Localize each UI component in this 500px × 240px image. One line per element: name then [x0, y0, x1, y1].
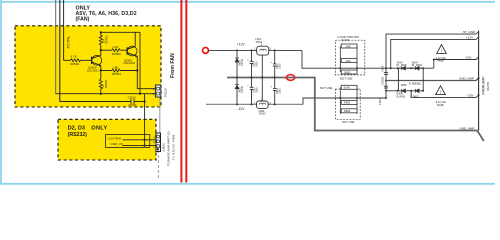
highlight block 2 dashed border	[58, 119, 156, 160]
highlight block 2 (RS232) yellow	[58, 119, 156, 160]
wire to 1.8K	[101, 70, 112, 72]
svg-text:GND63: GND63	[381, 76, 384, 85]
svg-text:C2501: C2501	[128, 96, 137, 100]
cap C649 on x386 upper	[384, 73, 388, 75]
wire +12V right	[391, 37, 479, 68]
node box1 right on +12 wire	[356, 67, 358, 69]
wire GS lower	[411, 95, 478, 98]
svg-text:1/4S: 1/4S	[346, 45, 351, 48]
svg-text:(FAN): (FAN)	[76, 16, 90, 22]
node -12V rail c613	[274, 103, 276, 105]
node -12V rail d602	[236, 103, 238, 105]
node bus gs join	[478, 94, 480, 96]
diode pair bottom wire: D651	[402, 89, 419, 93]
diode pair top wire: D648	[402, 66, 419, 70]
svg-text:+: +	[271, 86, 273, 89]
svg-text:4.7K: 4.7K	[71, 55, 77, 59]
svg-text:FROM AMP: FROM AMP	[482, 76, 486, 95]
node top wire 397	[397, 67, 399, 69]
FCTRL net vertical wire	[63, 0, 65, 60]
svg-text:G5V: G5V	[468, 94, 474, 98]
svg-text:D650: D650	[401, 84, 407, 87]
svg-text:-12V: -12V	[237, 107, 245, 111]
node top wire junction	[100, 31, 102, 33]
node 1.8K wire from Q1 emitter	[100, 69, 102, 71]
long vertical wire (black)	[59, 0, 61, 102]
wire to connector pin 2	[56, 93, 156, 95]
wire R0502 to Q2 base	[120, 49, 127, 51]
svg-text:+12V: +12V	[466, 36, 473, 40]
svg-text:(PART5): (PART5)	[487, 82, 490, 91]
FROM AMP bus	[478, 31, 480, 131]
Q1 emitter vertical	[100, 65, 102, 79]
capacitor C2501	[131, 99, 145, 104]
node 1.8K joins emitter	[136, 69, 138, 71]
svg-text:(RS232): (RS232)	[68, 132, 88, 138]
svg-text:R0503: R0503	[70, 62, 79, 66]
red highlight ring node	[203, 48, 209, 54]
svg-text:C649: C649	[381, 65, 384, 71]
-12V rail jog up	[303, 98, 386, 104]
svg-text:RL_R648: RL_R648	[397, 64, 408, 67]
page frame top border	[0, 1, 495, 3]
-12V rail	[206, 103, 303, 105]
svg-text:1S133: 1S133	[241, 58, 244, 66]
filter L601 (3-terminal)	[257, 46, 269, 55]
resistor R0501 10K (vertical)	[99, 35, 102, 45]
svg-text:2SC2021: 2SC2021	[87, 68, 99, 72]
vertical x386 down	[385, 68, 387, 98]
svg-text:FCTRL: FCTRL	[66, 35, 71, 49]
svg-text:RL_R649: RL_R649	[412, 64, 423, 67]
gray dashed page edge line bottom	[157, 150, 159, 178]
box1 right vertical	[356, 46, 358, 72]
node top wire 411	[410, 67, 412, 69]
transistor Q1 (Q0500)	[92, 55, 102, 67]
svg-text:470PF: 470PF	[128, 103, 137, 107]
resistor R605 (box style)	[341, 85, 357, 89]
signal label box (RS232)	[106, 135, 150, 148]
svg-text:R_R651: R_R651	[397, 95, 406, 98]
node x386 on -12 wire	[385, 97, 387, 99]
+12V rail jog down	[302, 50, 434, 68]
svg-text:1S133: 1S133	[241, 85, 244, 93]
transistor Q2 (Q0501)	[127, 46, 137, 58]
capacitor C613 column (bottom)	[273, 78, 277, 105]
node mid rail d601	[236, 77, 238, 79]
red separator line 1	[180, 0, 182, 183]
svg-text:NOT USE: NOT USE	[320, 86, 333, 90]
svg-text:1/4S: 1/4S	[346, 60, 351, 63]
svg-text:TW12: TW12	[255, 40, 262, 44]
wire R0501 top to node	[100, 32, 102, 35]
node on wire to pin2	[100, 93, 102, 95]
svg-text:+: +	[271, 61, 273, 64]
svg-text:100U: 100U	[255, 87, 258, 93]
node bus gnd join	[478, 77, 480, 79]
diode D601 column (top)	[235, 50, 239, 77]
node bottom wire 397	[397, 90, 399, 92]
capacitor C610 column (top)	[250, 50, 254, 77]
node box1 left on +12 wire	[339, 67, 341, 69]
svg-text:R0502: R0502	[112, 52, 121, 56]
top wire (collector rail)	[101, 31, 140, 33]
highlight block 1 dashed border	[15, 26, 161, 107]
svg-text:2SC1623: 2SC1623	[123, 61, 135, 65]
svg-text:To RS232 PWB: To RS232 PWB	[171, 134, 175, 160]
top wire corner down	[139, 32, 141, 93]
svg-text:ST_GND: ST_GND	[463, 30, 476, 34]
node vertical joins +12 wire	[139, 93, 141, 95]
node -12V rail c612	[251, 103, 253, 105]
node cap wire junction	[144, 100, 146, 102]
svg-text:R_R650(B): R_R650(B)	[409, 83, 421, 86]
wire FCTRL to R0503	[64, 59, 71, 61]
resistor R609 (box style)	[341, 109, 357, 113]
svg-text:TW12: TW12	[259, 112, 266, 116]
svg-text:From FAN: From FAN	[170, 53, 176, 78]
red separator line 2	[185, 0, 187, 183]
warning triangle 2	[436, 86, 446, 95]
Q2 emitter vertical down	[137, 56, 155, 88]
resistor R0504 1.8K	[112, 69, 120, 72]
dashed option box 2	[335, 89, 360, 119]
wire ST_GND (top right)	[386, 32, 479, 69]
wire +12VTRIG	[123, 139, 156, 141]
svg-text:!: !	[440, 90, 441, 95]
page frame bottom border	[0, 183, 495, 185]
resistor R0505 (vertical, Q1 emitter)	[99, 79, 102, 89]
svg-text:P2510: P2510	[163, 88, 167, 97]
resistor R603 (box style)	[341, 70, 357, 74]
svg-text:D2, D3: D2, D3	[68, 125, 85, 131]
node box2 right on -12 wire	[356, 97, 358, 99]
node box2 left on -12 wire	[339, 97, 341, 99]
resistor R608 (box style)	[341, 100, 357, 104]
node mid rail c610	[251, 77, 253, 79]
GND mid rail (thick)	[227, 78, 484, 142]
svg-text:+: +	[247, 58, 249, 61]
wire GS upper	[434, 57, 479, 60]
resistor R0502 1.2K	[112, 49, 120, 52]
svg-text:GND_AMP: GND_AMP	[459, 77, 474, 81]
connector P2510	[155, 85, 160, 97]
long vertical wire (gray)	[55, 0, 57, 94]
dashed option box 1	[335, 40, 365, 75]
box1 left vertical	[339, 46, 341, 72]
vertical link to GS wire	[433, 60, 435, 69]
svg-text:4T610: 4T610	[379, 98, 382, 105]
gray page edge line below connector	[159, 98, 161, 151]
svg-text:R0504: R0504	[112, 72, 121, 76]
cap C650 on x386 lower	[384, 86, 388, 88]
svg-text:R0501: R0501	[104, 35, 108, 44]
resistor R0503 4.7K	[71, 59, 81, 62]
svg-text:ONLY: ONLY	[91, 125, 107, 131]
wire 1.8K to Q2 emitter	[120, 70, 137, 72]
filter L602 (3-terminal)	[257, 101, 269, 108]
wire GND_AMP mid	[386, 78, 479, 81]
red highlight ellipse on mid rail	[286, 75, 294, 81]
svg-text:Rtn(B): Rtn(B)	[437, 60, 444, 63]
svg-text:GND_VD: GND_VD	[111, 142, 124, 146]
vertical wire down to RS232 block	[144, 94, 146, 146]
protection network box	[398, 68, 423, 91]
svg-text:NOT USE: NOT USE	[342, 120, 355, 124]
Q2 collector wire up	[134, 32, 136, 46]
svg-text:100U: 100U	[255, 61, 258, 67]
node x390 on +12 wire	[390, 67, 392, 69]
wire R0505 to +12 wire	[100, 89, 102, 94]
capacitor C612 column (bottom)	[250, 78, 254, 105]
svg-text:+: +	[247, 84, 249, 87]
svg-text:R0505: R0505	[104, 79, 108, 88]
svg-text:+12V: +12V	[237, 42, 246, 46]
wire capacitor line	[60, 101, 131, 103]
node top wire 423	[422, 67, 424, 69]
svg-text:TO-9447/C-0649 (PART-12): TO-9447/C-0649 (PART-12)	[166, 131, 170, 166]
node bottom wire 423	[422, 90, 424, 92]
svg-text:G5V: G5V	[466, 56, 472, 60]
bottom wire of box	[386, 90, 398, 92]
box2 right vertical	[356, 87, 358, 114]
svg-text:GND_AMP: GND_AMP	[460, 126, 475, 130]
collector wire Q1 up	[100, 45, 102, 56]
vertical link bottom to GS2 wire	[410, 91, 412, 98]
node x386 on +12 wire	[385, 67, 387, 69]
diode D602 column (bottom)	[235, 78, 239, 105]
svg-text:+12VTRIG: +12VTRIG	[107, 136, 122, 140]
node mid rail c611	[274, 77, 276, 79]
highlight block 1 (FAN) yellow	[15, 26, 161, 107]
node on gnd wire	[144, 145, 146, 147]
node x386 on gnd amp wire	[385, 80, 387, 82]
resistor R601 (box style)	[341, 44, 357, 48]
svg-text:1.2K: 1.2K	[112, 45, 118, 49]
svg-text:1.8K: 1.8K	[112, 65, 118, 69]
svg-text:Rtn(B): Rtn(B)	[437, 104, 444, 107]
+12V rail	[208, 49, 302, 51]
wire GND_VD	[123, 145, 156, 147]
svg-text:R608: R608	[344, 102, 351, 105]
node vertical on trig wire	[144, 139, 146, 141]
svg-text:R602: R602	[345, 71, 352, 74]
connector JU80X (RS232)	[156, 133, 161, 152]
filter L602 pin2 wire up to gnd	[261, 78, 263, 102]
svg-text:100U: 100U	[279, 88, 282, 94]
svg-text:JU80X: JU80X	[162, 143, 166, 152]
resistor R602 (box style)	[341, 59, 357, 63]
svg-text:NOT USE: NOT USE	[340, 76, 353, 80]
page frame left border	[0, 0, 2, 185]
svg-text:4L/4S: 4L/4S	[344, 87, 351, 90]
wire 1.2K node on collector	[100, 49, 102, 51]
svg-text:R609: R609	[344, 110, 351, 113]
warning triangle 1	[437, 45, 447, 54]
svg-text:Q-(H6): Q-(H6)	[342, 38, 350, 42]
capacitor C611 column (top)	[273, 50, 277, 77]
box2 left vertical	[339, 87, 341, 114]
filter L601 pin2 wire down to gnd	[261, 55, 263, 77]
svg-text:!: !	[441, 48, 442, 53]
node bottom wire 411	[410, 90, 412, 92]
svg-text:100U: 100U	[279, 63, 282, 69]
wire R0503 to Q1 base	[80, 59, 91, 61]
